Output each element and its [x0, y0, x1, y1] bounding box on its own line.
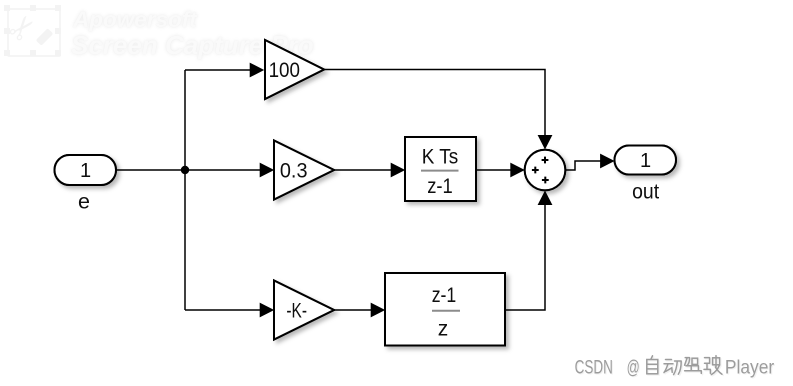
- watermark pencil icon: [36, 28, 54, 46]
- discrete derivative block z-1 / z: [385, 273, 505, 346]
- svg-text:100: 100: [269, 59, 300, 82]
- gain block -K-: [274, 281, 334, 340]
- svg-text:1: 1: [640, 150, 651, 172]
- svg-text:z: z: [438, 318, 449, 341]
- svg-text:-K-: -K-: [286, 299, 307, 322]
- wire: difference block to sum (bottom input): [505, 191, 552, 311]
- node: branch junction: [181, 166, 189, 174]
- svg-text:1: 1: [80, 160, 91, 182]
- svg-text:0.3: 0.3: [280, 159, 308, 182]
- wire: sum to outport: [565, 154, 614, 170]
- watermark logo box: [0, 0, 70, 62]
- wire: junction up to gain 100: [185, 63, 264, 78]
- discrete integrator block K Ts / z-1: [405, 137, 476, 201]
- wire: gain -K- to difference block: [334, 303, 385, 318]
- wire: junction down to gain -K-: [185, 303, 274, 318]
- svg-text:z-1: z-1: [432, 284, 457, 307]
- outport block out (1): [615, 146, 677, 175]
- gain block 100: [265, 40, 324, 99]
- wire: integrator to sum (left input): [476, 163, 525, 178]
- watermark CSDN text: [575, 355, 775, 378]
- svg-text:z-1: z-1: [427, 175, 453, 198]
- inport block e (1): [55, 155, 117, 185]
- wire: inport e to junction and gain 0.3: [116, 163, 274, 178]
- svg-text:out: out: [632, 179, 659, 203]
- watermark CSDN emboss: [576, 357, 776, 380]
- sum block: [525, 150, 566, 191]
- wire: gain 0.3 to discrete integrator: [334, 163, 405, 178]
- watermark text Apowersoft: [73, 7, 197, 33]
- watermark text Screen Capture Pro: [71, 30, 314, 61]
- svg-text:K Ts: K Ts: [422, 145, 459, 168]
- wire: gain 100 to sum (top input): [324, 70, 552, 150]
- wire: vertical branch line: [184, 70, 186, 310]
- watermark scissors icon: [0, 6, 46, 51]
- svg-text:e: e: [78, 190, 90, 214]
- gain block 0.3: [274, 141, 334, 200]
